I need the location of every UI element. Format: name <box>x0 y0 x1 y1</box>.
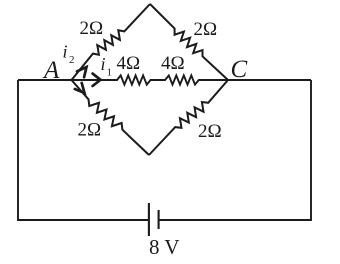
arrow current i2 up-right on branch A-top <box>77 67 87 77</box>
resistor 2-ohm top-left branch A to top node <box>72 4 151 80</box>
wire node A to node C with 4-ohm resistors and outer top wires <box>18 75 311 84</box>
wire right vertical from node C loop to battery <box>159 80 311 220</box>
svg-text:2Ω: 2Ω <box>198 121 222 142</box>
battery 8V long plate <box>148 203 150 236</box>
svg-text:2: 2 <box>69 54 75 66</box>
svg-text:i: i <box>101 54 106 74</box>
svg-text:A: A <box>42 57 60 84</box>
wire left vertical from node A loop to battery <box>18 80 149 220</box>
svg-text:C: C <box>231 56 248 83</box>
svg-text:2Ω: 2Ω <box>80 18 104 39</box>
arrow current down-right on branch A-bottom <box>75 83 85 93</box>
resistor 2-ohm top-right branch top node to C <box>150 4 228 80</box>
arrow current i1 right on middle branch <box>93 74 101 86</box>
resistor 2-ohm bottom-right branch bottom node to C <box>149 80 228 155</box>
svg-text:4Ω: 4Ω <box>117 53 141 74</box>
svg-text:2Ω: 2Ω <box>78 120 102 141</box>
battery 8V short plate <box>158 210 160 229</box>
svg-text:1: 1 <box>107 67 113 79</box>
svg-text:8 V: 8 V <box>149 235 180 259</box>
resistor 2-ohm bottom-left branch A to bottom node <box>72 80 150 155</box>
svg-text:i: i <box>63 42 68 62</box>
svg-text:2Ω: 2Ω <box>194 19 218 40</box>
svg-text:4Ω: 4Ω <box>161 53 185 74</box>
